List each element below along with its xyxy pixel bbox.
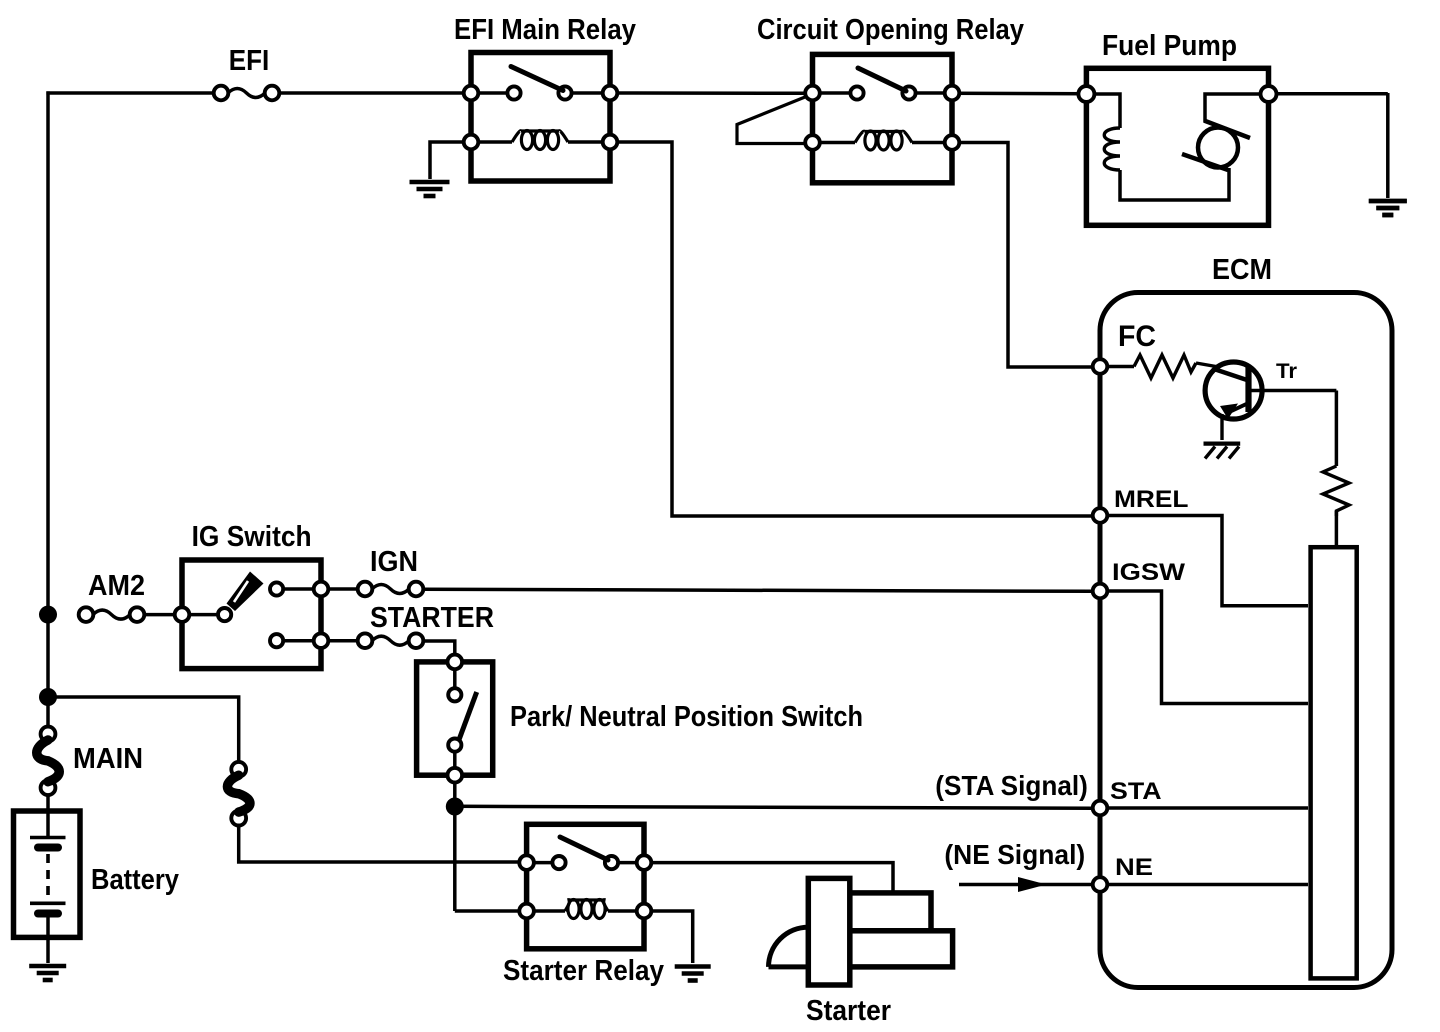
svg-text:Circuit Opening Relay: Circuit Opening Relay xyxy=(757,14,1024,46)
svg-text:(STA Signal): (STA Signal) xyxy=(935,770,1088,801)
svg-text:Battery: Battery xyxy=(91,864,179,896)
svg-text:Fuel Pump: Fuel Pump xyxy=(1102,30,1237,62)
svg-text:IGN: IGN xyxy=(370,546,418,578)
svg-text:MREL: MREL xyxy=(1114,486,1189,513)
svg-text:Park/ Neutral Position Switch: Park/ Neutral Position Switch xyxy=(510,701,863,733)
svg-text:AM2: AM2 xyxy=(88,570,145,602)
svg-text:EFI Main Relay: EFI Main Relay xyxy=(454,14,636,46)
svg-text:ECM: ECM xyxy=(1212,254,1272,286)
svg-text:NE: NE xyxy=(1115,854,1153,881)
svg-text:IGSW: IGSW xyxy=(1112,559,1185,586)
svg-text:FC: FC xyxy=(1118,320,1156,353)
svg-text:(NE Signal): (NE Signal) xyxy=(944,839,1085,870)
svg-text:Starter: Starter xyxy=(806,995,891,1027)
svg-text:EFI: EFI xyxy=(229,45,270,77)
svg-text:STA: STA xyxy=(1110,778,1162,805)
svg-text:Starter Relay: Starter Relay xyxy=(503,955,664,987)
svg-text:Tr: Tr xyxy=(1276,360,1297,383)
svg-text:IG Switch: IG Switch xyxy=(192,521,312,553)
svg-text:MAIN: MAIN xyxy=(73,743,143,775)
svg-text:STARTER: STARTER xyxy=(370,602,494,634)
